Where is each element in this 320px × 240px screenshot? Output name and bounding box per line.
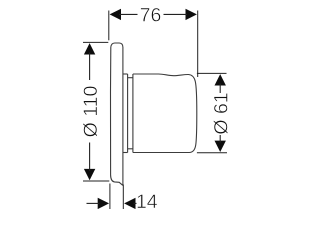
dimension O61: bottom extension line (197, 152, 227, 154)
dimension O61: bottom arrow (215, 141, 226, 152)
knob profile (133, 74, 197, 153)
dimension O61: dim line upper part (219, 84, 221, 94)
flange right edge (127, 74, 129, 153)
flange top edge (123, 73, 128, 75)
dimension 76: right arrow (186, 9, 197, 20)
svg-text:76: 76 (140, 5, 162, 27)
dimension 14: left arrow (98, 198, 109, 209)
dimension O110: bottom extension line (83, 180, 109, 182)
dimension O110: dim line upper part (89, 53, 91, 81)
svg-text:Ø 61: Ø 61 (210, 92, 232, 134)
dimension 14: right arrow (124, 198, 135, 209)
dimension 76: dim line right part (164, 13, 188, 15)
dimension 14: right extension line (122, 185, 124, 210)
dimension 14: right tail line (134, 202, 137, 204)
dimension 14: left extension line (109, 184, 111, 210)
dimension 76: right extension line (197, 11, 199, 78)
escutcheon plate profile (110, 43, 122, 185)
svg-text:Ø 110: Ø 110 (80, 86, 102, 138)
dimension O61: top extension line (197, 72, 227, 74)
groove top silhouette (128, 77, 133, 79)
dimension O110: bottom arrow (84, 169, 95, 180)
groove bottom silhouette (128, 148, 133, 150)
dimension O110: top extension line (83, 41, 108, 43)
svg-text:14: 14 (136, 191, 158, 209)
flange bottom edge (123, 152, 128, 154)
dimension O61: top arrow (215, 74, 226, 85)
dimension O110: dim line lower part (89, 143, 91, 172)
dimension O61: dim line lower part (219, 135, 221, 143)
knob back edge (132, 74, 134, 153)
dimension 14: left tail line (87, 202, 100, 204)
dimension O110: top arrow (84, 43, 95, 54)
dimension 76: left extension line (108, 11, 110, 41)
dimension 76: dim line left part (119, 13, 138, 15)
dimension 76: left arrow (110, 9, 121, 20)
